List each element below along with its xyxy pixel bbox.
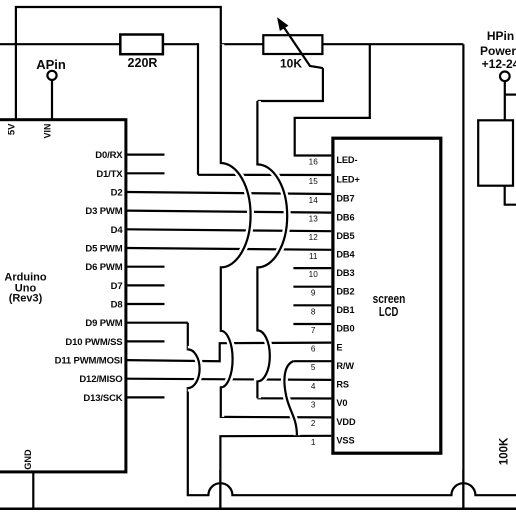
svg-text:+12-24V: +12-24V [482,57,516,71]
wire LED+ to LCD pin15 [198,174,331,176]
svg-text:D6 PWM: D6 PWM [85,262,122,273]
LCD box [333,138,441,453]
redraw verticals crossing the hops on y=495 line [220,470,463,509]
wire pot wiper tail down and left [257,68,323,101]
svg-text:DB0: DB0 [336,324,354,334]
stub D0/RX [127,154,165,156]
svg-text:(Rev3): (Rev3) [9,293,43,305]
wires that hop: white halo under black stroke [188,44,297,435]
svg-text:11: 11 [309,252,318,261]
wire D11 to E jog [127,343,331,362]
svg-text:VIN: VIN [43,124,53,139]
svg-text:15: 15 [309,177,319,186]
Arduino pin labels [55,150,124,404]
wire R/W to VSS bezier [284,361,296,435]
svg-text:1: 1 [311,438,316,447]
svg-text:DB3: DB3 [336,268,354,278]
wire GND vertical through hop [462,470,464,509]
svg-text:APin: APin [36,57,66,72]
svg-text:DB7: DB7 [336,194,354,204]
svg-text:screen: screen [373,291,406,306]
potentiometer wiper arrow shaft [278,19,323,68]
wire VSS vertical through hop [219,470,221,509]
svg-text:D10 PWM/SS: D10 PWM/SS [65,337,122,348]
svg-text:10K: 10K [280,56,302,70]
wire 5V top rail from 5V pin to x=220.8 [16,7,221,120]
svg-text:10: 10 [309,270,319,279]
svg-text:5: 5 [311,363,316,372]
svg-text:D9 PWM: D9 PWM [85,318,122,329]
LCD pin numbers [309,158,319,447]
svg-text:D13/SCK: D13/SCK [83,393,122,404]
wire 220R right lead to LED+ drop [163,44,198,175]
wire pot wiper vertical with big arc and lower arc, to V0 [257,101,287,398]
svg-text:VDD: VDD [336,417,356,427]
potentiometer arrowhead [278,18,288,30]
stub LCD pin5 R/W [293,360,331,362]
svg-text:R/W: R/W [336,361,354,371]
svg-text:DB2: DB2 [336,286,354,296]
svg-text:100K: 100K [499,437,511,465]
svg-text:D8: D8 [111,300,123,311]
svg-text:D3 PWM: D3 PWM [85,206,122,217]
wire D4 to DB5 [127,229,331,231]
svg-text:GND: GND [23,449,33,470]
svg-text:Arduino: Arduino [4,271,46,283]
svg-text:2: 2 [311,419,316,428]
LCD pin name labels [336,155,359,445]
svg-text:7: 7 [311,326,316,335]
stub D8 [127,303,165,305]
Arduino Uno box [0,120,126,472]
wire 220R left lead from left edge [0,43,120,45]
svg-text:D11 PWM/MOSI: D11 PWM/MOSI [55,356,123,367]
stub D1/TX [127,172,165,174]
svg-text:DB5: DB5 [336,231,354,241]
wire pot left lead [221,43,264,45]
wire D2 to DB7 [127,192,331,194]
ground bus bottom [0,508,516,511]
wire VDD horizontal [221,416,331,419]
svg-text:DB6: DB6 [336,212,354,222]
wire VSS to GND drop [220,436,331,509]
wire D9 vertical arc over D11/D12 [188,349,200,388]
stub LCD pin8 DB1 [293,304,331,306]
svg-text:5V: 5V [7,123,18,135]
svg-text:VSS: VSS [336,436,354,446]
stub D10 [127,340,165,342]
wire D9 PWM bottom run with hops [188,323,516,496]
svg-text:DB4: DB4 [336,250,355,260]
stub D6 [127,266,165,268]
wire APin to VIN [51,80,53,120]
svg-text:13: 13 [309,215,319,224]
wire D12 to RS [127,379,331,380]
svg-text:RS: RS [336,380,349,390]
wire 5V vertical with big arc over D2-D5 and LED+ lines, arc over E/RS, to VDD [221,44,251,417]
svg-text:D4: D4 [111,225,124,236]
stub D7 [127,284,165,286]
resistor 100K body (right) [478,120,513,185]
svg-text:LED-: LED- [336,155,357,165]
wire GND vertical from pot-right run down to bus [462,44,464,509]
wire pot right lead to GND drop at x=463.4 [321,43,463,45]
node HPin terminal circle [500,72,510,82]
wire HPin branch right [505,93,516,95]
stub LCD pin10 DB3 [293,267,331,269]
stub LCD pin9 DB2 [293,286,331,288]
svg-text:16: 16 [309,158,319,167]
wire D5 to DB4 [127,248,331,250]
wire D3 to DB6 [127,211,331,213]
wire Arduino GND pin to bus [32,473,34,509]
svg-text:D12/MISO: D12/MISO [79,374,122,385]
wire 100K bottom lead [505,186,516,205]
svg-text:3: 3 [311,401,316,410]
svg-text:E: E [336,342,342,352]
svg-text:D2: D2 [111,188,123,199]
stub D13 [127,396,165,398]
wire D9 pin line [127,322,188,324]
stub LCD pin7 DB0 [293,323,331,325]
svg-text:DB1: DB1 [336,305,354,315]
svg-text:Power In: Power In [480,44,516,58]
svg-text:12: 12 [309,233,319,242]
svg-text:D0/RX: D0/RX [95,150,123,161]
svg-text:V0: V0 [336,398,347,408]
svg-text:HPin: HPin [487,29,514,43]
svg-text:8: 8 [311,307,316,316]
svg-text:14: 14 [309,196,319,205]
svg-text:LED+: LED+ [336,175,359,185]
svg-text:6: 6 [311,345,316,354]
svg-text:D5 PWM: D5 PWM [85,244,122,255]
wire V0 horizontal [257,397,331,399]
svg-text:220R: 220R [128,56,158,70]
svg-text:D1/TX: D1/TX [96,169,123,180]
potentiometer 10K body [263,35,322,54]
node APin terminal circle [47,71,56,80]
svg-text:D7: D7 [111,281,123,292]
wire LED- branch: down, left, down to LCD pin16 [295,44,370,155]
wire HPin down to 100K resistor [504,81,506,120]
resistor R1 220R [120,35,163,55]
svg-text:9: 9 [311,289,316,298]
svg-text:LCD: LCD [379,305,399,319]
svg-text:4: 4 [311,382,316,391]
